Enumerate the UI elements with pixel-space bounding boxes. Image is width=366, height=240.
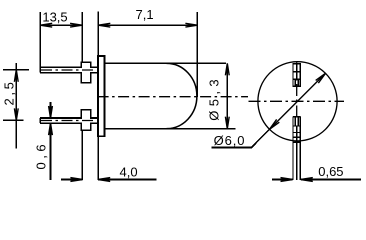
svg-text:Ø6,0: Ø6,0 xyxy=(214,133,246,148)
svg-text:0,6: 0,6 xyxy=(33,141,48,170)
svg-text:2,5: 2,5 xyxy=(2,80,17,106)
svg-text:0,65: 0,65 xyxy=(318,164,343,179)
svg-text:13,5: 13,5 xyxy=(42,9,67,24)
svg-text:4,0: 4,0 xyxy=(120,164,138,179)
svg-text:7,1: 7,1 xyxy=(136,7,154,22)
svg-text:Ø5,3: Ø5,3 xyxy=(207,75,222,121)
